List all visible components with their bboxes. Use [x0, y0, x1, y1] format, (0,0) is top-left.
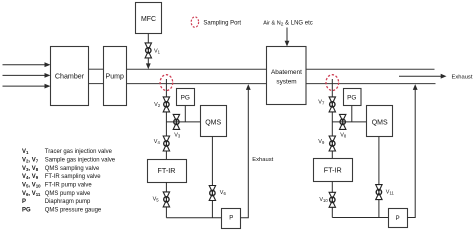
svg-text:V3, V8: V3, V8: [22, 166, 39, 172]
svg-text:FT-IR: FT-IR: [158, 166, 176, 175]
svg-text:V2, V7: V2, V7: [22, 158, 39, 164]
legend row V5,V10: [22, 183, 92, 189]
label: Air & N2 & LNG etc: [263, 21, 312, 47]
legend row P: [22, 199, 91, 205]
svg-text:P: P: [229, 216, 233, 222]
box QMS (left): [201, 106, 227, 137]
wire: FT-IR down to pump line (right): [331, 182, 333, 218]
svg-text:V6: V6: [220, 190, 227, 196]
wire: QMS down to pump line (right): [378, 137, 380, 218]
svg-text:MFC: MFC: [141, 16, 156, 23]
sampling port circle left: [160, 75, 173, 91]
svg-text:QMS: QMS: [372, 120, 388, 127]
box Pump: [104, 47, 127, 106]
flow arrow to Exhaust: [399, 74, 473, 81]
arrow into duct (right exhaust return): [413, 84, 418, 90]
valve V7: [318, 97, 335, 112]
arrow into duct from V1: [146, 63, 151, 69]
legend: sampling port symbol: [191, 17, 241, 27]
wire: sampling probe down to FT-IR: [165, 79, 167, 159]
svg-text:V4: V4: [154, 139, 161, 145]
svg-text:QMS pressure gauge: QMS pressure gauge: [45, 208, 102, 214]
svg-text:V1: V1: [22, 149, 29, 155]
svg-text:V4, V9: V4, V9: [22, 174, 39, 180]
legend row V3,V8: [22, 166, 100, 172]
wire: bottom line to pump P: [166, 217, 221, 219]
svg-text:Pump: Pump: [106, 74, 124, 81]
svg-text:V10: V10: [319, 197, 328, 203]
svg-text:V5, V10: V5, V10: [22, 183, 41, 189]
wire: inlet arrows into chamber: [3, 62, 51, 88]
box Chamber: [51, 47, 89, 106]
svg-text:V1: V1: [154, 49, 161, 55]
svg-text:Air & N2 & LNG etc: Air & N2 & LNG etc: [263, 21, 312, 28]
valve V11: [376, 185, 395, 200]
duct: chamber to pump: [89, 69, 104, 83]
box Abatement system: [267, 47, 307, 105]
valve V2: [154, 97, 169, 112]
arrow into duct (left exhaust return): [246, 84, 251, 90]
valve V10: [319, 192, 335, 207]
svg-text:QMS: QMS: [205, 119, 221, 126]
legend row V4,V9: [22, 174, 101, 180]
svg-text:V9: V9: [318, 139, 325, 145]
svg-text:Exhaust: Exhaust: [252, 157, 273, 163]
svg-text:V2: V2: [154, 102, 161, 108]
wire: bottom line to pump P (right): [332, 217, 388, 219]
svg-text:P: P: [396, 216, 400, 222]
valve V4: [154, 136, 170, 151]
valve V9: [318, 136, 335, 151]
svg-text:Chamber: Chamber: [55, 73, 85, 81]
svg-text:Tracer gas injection valve: Tracer gas injection valve: [45, 149, 113, 155]
wire: sampling probe down to FT-IR (right): [331, 79, 333, 159]
svg-text:V6, V11: V6, V11: [22, 191, 41, 197]
wire: FT-IR down to pump line: [165, 182, 167, 218]
svg-text:V7: V7: [318, 100, 325, 106]
svg-text:Abatement: Abatement: [271, 69, 302, 76]
valve V5: [153, 192, 170, 207]
legend row V1: [22, 149, 113, 155]
svg-text:V3: V3: [174, 132, 181, 138]
wire: branch to QMS (right): [332, 121, 367, 123]
wire: MFC to V1: [147, 34, 149, 66]
box FT-IR (right): [314, 159, 353, 182]
valve V6: [209, 186, 226, 201]
box PG (left): [177, 89, 195, 106]
svg-text:PG: PG: [347, 95, 356, 102]
wire: PG down to branch (right): [351, 106, 353, 122]
duct: pump to abatement system: [127, 69, 267, 83]
box P diaphragm pump (left): [222, 209, 241, 229]
box P diaphragm pump (right): [389, 209, 408, 228]
legend row V6,V11: [22, 191, 91, 197]
legend row PG: [22, 208, 102, 214]
duct: abatement to exhaust end: [306, 69, 436, 83]
box FT-IR (left): [148, 160, 187, 183]
svg-text:V8: V8: [340, 132, 347, 138]
sampling port circle right: [326, 75, 339, 91]
legend row V2,V7: [22, 158, 116, 164]
svg-text:system: system: [276, 79, 296, 86]
valve V1: [145, 43, 161, 58]
wire: QMS down to pump line: [211, 137, 213, 218]
svg-text:Sample gas injection valve: Sample gas injection valve: [45, 158, 116, 164]
svg-text:Sampling Port: Sampling Port: [203, 21, 241, 27]
svg-text:PG: PG: [181, 95, 190, 102]
wire: P to exhaust riser (right): [407, 87, 415, 218]
svg-text:FT-IR pump valve: FT-IR pump valve: [45, 183, 93, 189]
svg-text:QMS pump valve: QMS pump valve: [45, 191, 91, 197]
svg-text:QMS sampling valve: QMS sampling valve: [45, 166, 100, 172]
box QMS (right): [367, 106, 393, 137]
valve V8: [340, 114, 347, 138]
box PG (right): [344, 89, 362, 106]
wire: PG down to branch: [184, 106, 186, 122]
svg-text:Diaphragm pump: Diaphragm pump: [45, 199, 91, 205]
svg-text:PG: PG: [22, 208, 31, 214]
svg-text:FT-IR: FT-IR: [324, 165, 342, 174]
box MFC: [136, 3, 162, 34]
svg-text:V5: V5: [153, 196, 160, 202]
svg-text:FT-IR sampling valve: FT-IR sampling valve: [45, 174, 101, 180]
svg-text:P: P: [22, 199, 26, 205]
svg-text:V11: V11: [386, 190, 395, 196]
svg-text:Exhaust: Exhaust: [452, 75, 473, 81]
wire: branch to QMS: [166, 121, 200, 123]
valve V3: [173, 114, 181, 138]
wire: P to exhaust riser (left): [241, 87, 249, 218]
